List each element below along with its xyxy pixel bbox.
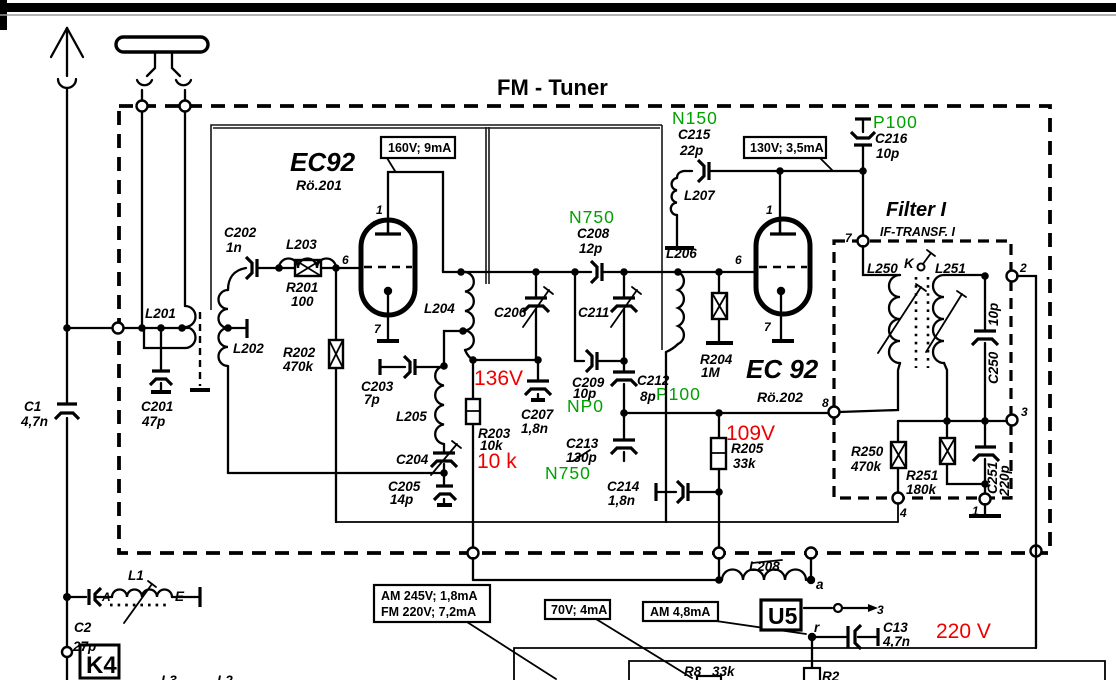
svg-text:C213: C213 [566,436,599,451]
node A junction antenna/C2 [63,593,71,601]
svg-text:R201: R201 [286,280,318,295]
callout box AM 4,8mA [643,602,806,634]
trimmer capacitor C216 [851,112,918,171]
wire antenna input bus y=328 [67,327,188,329]
trimmer capacitor C211 [578,268,641,361]
node C201 tap [157,324,165,332]
node C209 branch [571,268,579,276]
svg-text:14p: 14p [390,492,413,507]
node C212 top [620,357,628,365]
node L203 right / R202 top [332,264,340,272]
node L203 left [275,264,283,272]
wire node3 [898,420,1007,422]
core symbol K [904,250,935,271]
svg-text:Rö.201: Rö.201 [296,177,342,193]
svg-text:C215: C215 [678,127,711,142]
wire oscillator feedback y=473 [228,472,444,474]
node C213 top [620,409,628,417]
svg-text:220 V: 220 V [936,620,991,643]
capacitor C207 [521,356,555,436]
node C214/R205 [715,488,723,496]
capacitor C212 [611,361,701,413]
node C216 / anode line [859,167,867,175]
svg-text:470k: 470k [850,459,883,474]
feedthrough circles on box top edge [137,101,191,112]
svg-text:4,7n: 4,7n [20,414,48,429]
pin 6 label tube1 [342,253,349,267]
svg-text:70V; 4mA: 70V; 4mA [551,603,607,617]
svg-text:R251: R251 [906,468,938,483]
svg-text:AM 245V; 1,8mA: AM 245V; 1,8mA [381,589,478,603]
capacitor C202 [224,225,279,279]
ground bar C201 [151,390,171,394]
svg-text:R205: R205 [731,441,764,456]
resistor R203 10k [466,360,511,548]
capacitor C205 [388,473,456,507]
node L208 left [715,576,723,584]
label Filter I [880,199,956,239]
node coil tap [178,324,186,332]
capacitor C208 (series in bus) [569,207,615,283]
svg-text:470k: 470k [282,359,315,374]
svg-text:C202: C202 [224,225,257,240]
Filter I dashed box (IF transformer can) [834,241,1011,498]
svg-text:6: 6 [342,253,349,267]
capacitor C250 [972,276,1001,421]
svg-text:C204: C204 [396,452,429,467]
svg-text:6: 6 [735,253,742,267]
node C251/R251 [981,480,989,488]
antenna feed wire (left vertical) [66,88,68,647]
tube1 cathode to ground [377,291,399,341]
wire to filter pin 7 [845,171,863,245]
resistor R202 (box with X) grid leak [282,268,343,522]
coil L251 (tunable secondary) [926,261,985,421]
capacitor C209 [567,272,624,416]
main tank bus wire y=272 [443,271,756,273]
coil L201 [144,306,196,348]
resistor R201 (box with X) [286,260,321,309]
coil L1 with core [101,568,200,623]
resistor R250 470k (box with X) [850,421,906,493]
svg-text:L2: L2 [217,673,233,680]
svg-text:130V; 3,5mA: 130V; 3,5mA [750,141,824,155]
node L204 bottom 136V [469,356,477,364]
top border bar [0,0,1116,30]
svg-text:E: E [175,589,185,604]
resistor R2 [804,668,840,680]
node C203/L205 [440,362,448,370]
coil L204 [424,272,474,360]
svg-text:P100: P100 [873,112,918,132]
svg-text:220p: 220p [997,465,1012,497]
svg-text:1: 1 [766,203,773,217]
label FM - Tuner [497,75,608,100]
svg-text:12p: 12p [579,241,602,256]
node L204 tap [444,327,467,366]
switch contact to 3 [804,603,884,617]
coil L205 [396,366,444,444]
node 3 circle [1007,405,1029,426]
svg-text:136V: 136V [474,367,523,390]
node C251 top [981,417,989,425]
node r [808,620,820,680]
dipole antenna symbol [116,37,208,85]
coil L206 [666,246,697,522]
svg-text:8p: 8p [640,389,656,404]
svg-text:C13: C13 [883,620,908,635]
svg-text:L205: L205 [396,409,427,424]
labels L3 L2 (cut off at bottom) [161,673,233,680]
svg-text:C214: C214 [607,479,640,494]
svg-text:R250: R250 [851,444,884,459]
trimmer capacitor C204 [396,441,461,475]
wire 136V node [473,359,538,361]
svg-text:R2: R2 [822,669,840,680]
label 136V (red) [474,367,523,390]
svg-text:N150: N150 [672,108,718,128]
svg-text:A: A [101,590,111,604]
svg-text:C216: C216 [875,131,908,146]
svg-text:C2: C2 [74,620,92,635]
capacitor C1 (series in antenna lead) [20,399,79,429]
dipole downleads [142,90,185,328]
node 4 circle [893,493,908,521]
output rail to AM section [514,648,1036,680]
svg-text:C1: C1 [24,399,41,414]
svg-text:33k: 33k [733,456,757,471]
node 1 circle with ground [969,494,1001,519]
tube1 anode feed wire to 160V [388,172,443,272]
svg-text:L3: L3 [161,673,177,680]
wire AFC line below box [473,558,719,580]
wire pin7 to L250 [863,246,900,275]
node L202 tap [224,319,247,338]
wire grid bus tube1 [279,267,361,269]
label 220 V (red) [936,620,991,643]
chassis rail y=522 [336,521,898,523]
svg-text:2: 2 [1019,261,1027,275]
svg-text:C207: C207 [521,407,555,422]
connector U5 [761,600,801,630]
inner shield line between stages [486,127,489,284]
svg-text:Filter I: Filter I [886,199,946,221]
node 2 circle [1007,261,1028,282]
capacitor C214 [607,479,719,508]
capacitor C2 [67,588,101,654]
svg-text:4,7n: 4,7n [882,634,910,649]
svg-text:3: 3 [877,603,884,617]
output line from node 2 [1017,276,1036,648]
svg-text:C208: C208 [577,226,610,241]
feedthrough circle on box left edge [113,323,124,334]
svg-text:1n: 1n [226,240,242,255]
svg-text:C201: C201 [141,399,173,414]
svg-text:160V; 9mA: 160V; 9mA [388,141,451,155]
svg-text:4: 4 [899,506,907,520]
svg-text:180k: 180k [906,482,938,497]
tube EC92 Rö.201 [290,147,415,336]
rail to node 4 [897,503,899,522]
callout box 160V 9mA [381,137,455,171]
capacitor C215 [672,108,863,182]
svg-text:R202: R202 [283,345,316,360]
svg-text:C206: C206 [494,305,527,320]
label 109V (red) [726,422,775,445]
svg-text:Rö.202: Rö.202 [757,389,803,405]
svg-text:22p: 22p [679,143,703,158]
svg-text:8: 8 [822,396,829,410]
coil L208 [722,559,806,580]
svg-text:10 k: 10 k [477,450,517,473]
node junction antenna line [63,324,71,332]
node a [807,558,824,592]
svg-text:L251: L251 [935,261,966,276]
svg-text:EC 92: EC 92 [746,354,819,384]
svg-text:47p: 47p [141,414,165,429]
svg-text:a: a [816,577,824,592]
capacitor C13 [812,620,910,649]
svg-text:K: K [904,256,915,271]
transformer core dotted lines [916,277,928,368]
node C250 top [981,272,989,280]
inner shield thin box (stage 1) [211,125,662,350]
label 10 k (red) [477,450,517,473]
callout box 70V 4mA [545,600,692,678]
resistor R205 33k [711,413,764,548]
svg-text:L204: L204 [424,301,455,316]
shield dashed line with ground [190,312,210,390]
tube EC92 Rö.202 [746,203,819,405]
svg-text:10p: 10p [986,303,1001,326]
connector K4 [62,645,119,680]
feedthrough circle pin7 filter [858,236,869,247]
svg-text:L201: L201 [145,306,176,321]
resistor R251 180k (box with X) [906,421,985,497]
svg-text:3: 3 [1021,405,1028,419]
trimmer capacitor C206 [494,268,553,360]
svg-text:100: 100 [291,294,314,309]
node R205 top [715,409,723,417]
svg-text:L250: L250 [867,261,898,276]
wire output node y=413 [624,412,831,414]
svg-text:1M: 1M [701,365,721,380]
pin 6 label tube2 [735,253,742,267]
coil L203 [279,237,336,268]
svg-text:C250: C250 [986,351,1001,384]
svg-text:L203: L203 [286,237,317,252]
capacitor C203 [361,356,444,407]
node C204/C205 [440,469,448,477]
svg-text:NP0: NP0 [567,396,604,416]
svg-text:L207: L207 [684,188,716,203]
node L251/R251 [943,417,951,425]
svg-text:1,8n: 1,8n [608,493,635,508]
svg-text:N750: N750 [569,207,615,227]
svg-text:1: 1 [972,504,979,518]
svg-text:AM 4,8mA: AM 4,8mA [650,605,710,619]
resistor R204 1M (box with X) [700,268,733,380]
node 8 circle on filter edge [822,396,840,418]
FM-Tuner shield dashed box [119,106,1050,553]
capacitor C213 [545,413,637,483]
svg-text:10p: 10p [876,146,899,161]
svg-text:L202: L202 [233,341,264,356]
tube2 cathode to ground [772,291,794,341]
svg-text:U5: U5 [768,603,798,629]
antenna mast symbol [51,28,83,88]
svg-text:P100: P100 [656,384,701,404]
svg-text:IF-TRANSF. I: IF-TRANSF. I [880,225,956,239]
callout box AM 245V FM 220V [374,585,556,679]
svg-text:EC92: EC92 [290,147,356,177]
node L204 top [457,268,465,276]
capacitor C201 [141,328,173,429]
svg-text:N750: N750 [545,463,591,483]
coil L250 (tunable primary) [839,261,926,412]
callout box 130V 3,5mA [744,137,832,170]
AM section box [629,661,1105,680]
svg-text:1: 1 [376,203,383,217]
coil L202 [219,268,265,473]
svg-text:r: r [814,620,820,635]
svg-text:FM - Tuner: FM - Tuner [497,75,608,100]
svg-text:FM 220V; 7,2mA: FM 220V; 7,2mA [381,605,476,619]
resistor R8 [684,664,736,680]
capacitor C251 [973,421,1012,497]
coil L207 [665,171,716,248]
node downlead1 [138,324,146,332]
feedthrough circles on box bottom edge [468,546,1042,559]
svg-text:L1: L1 [128,568,144,583]
svg-text:C211: C211 [578,305,609,320]
svg-text:K4: K4 [86,652,117,679]
svg-text:7p: 7p [364,392,380,407]
svg-text:1,8n: 1,8n [521,421,548,436]
tube2 anode feed [776,167,784,233]
